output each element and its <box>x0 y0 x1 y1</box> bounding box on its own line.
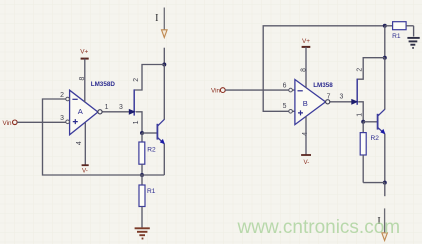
svg-text:3: 3 <box>339 94 343 101</box>
wire: base of Q4 <box>363 121 377 123</box>
Q1 gate arrow <box>129 109 136 115</box>
resistor R2 <box>139 133 156 175</box>
svg-text:1: 1 <box>133 120 140 124</box>
wire: base of Q2 <box>142 132 157 134</box>
svg-text:7: 7 <box>327 94 331 101</box>
power V- (right) <box>301 116 311 165</box>
svg-text:www.cntronics.com: www.cntronics.com <box>237 217 401 238</box>
junction: emitter/feedback node <box>140 173 144 177</box>
svg-text:1: 1 <box>105 104 109 111</box>
current annotation I (right circuit) <box>377 208 387 240</box>
wire: emitter rail <box>163 144 165 175</box>
wire: drain step of JFET Q1 <box>134 65 164 91</box>
junction: base node <box>140 131 144 135</box>
wire: node down <box>384 183 386 197</box>
junction: top node (right) <box>383 24 387 28</box>
wire: Q1 source lead down to base node <box>136 112 142 133</box>
svg-text:2: 2 <box>133 78 140 82</box>
resistor R1 (right) <box>385 22 414 40</box>
svg-text:1: 1 <box>356 113 363 117</box>
ground (right top) <box>407 38 419 48</box>
svg-text:I: I <box>155 13 158 24</box>
ground (left) <box>135 228 150 238</box>
svg-text:R1: R1 <box>392 33 401 40</box>
power V- (left) <box>82 123 89 175</box>
junction: drain node (right) <box>383 56 387 60</box>
svg-text:R2: R2 <box>147 146 156 153</box>
svg-text:6: 6 <box>283 83 287 90</box>
wire: feedback top loop (right) <box>263 26 385 112</box>
port Vin (right) <box>211 88 295 95</box>
transistor Q1 JFET channel bar <box>133 89 135 115</box>
svg-text:2: 2 <box>60 92 64 99</box>
svg-text:2: 2 <box>357 68 364 72</box>
junction: drain node <box>162 63 166 67</box>
pin circle: pin 5 <box>289 110 293 114</box>
svg-text:V+: V+ <box>302 38 310 45</box>
svg-text:4: 4 <box>76 141 83 145</box>
wire: drain step of JFET Q3 <box>357 58 385 79</box>
power V+ (right) <box>302 38 311 87</box>
svg-text:R1: R1 <box>147 188 156 195</box>
wire: Q3 source lead down to base node <box>358 102 363 122</box>
wire: collector rail (right) <box>384 58 386 110</box>
svg-text:V-: V- <box>303 159 309 166</box>
svg-text:LM358: LM358 <box>313 82 333 89</box>
svg-text:Vin: Vin <box>3 120 12 127</box>
svg-text:3: 3 <box>60 115 64 122</box>
svg-text:V+: V+ <box>80 49 88 56</box>
pin circle: pin 2 <box>66 97 70 101</box>
junction: base node (right) <box>361 120 365 124</box>
wire: collector rail <box>163 65 165 120</box>
wire: op-amp output to Q3 gate <box>330 101 352 103</box>
wire: op-amp output to Q1 gate <box>102 111 129 113</box>
svg-text:Vin: Vin <box>211 88 220 95</box>
wire: feedback to inverting input <box>43 99 143 175</box>
resistor R2 (right) <box>360 122 379 183</box>
svg-text:3: 3 <box>119 104 123 111</box>
svg-text:V-: V- <box>82 168 88 175</box>
svg-text:5: 5 <box>283 103 287 110</box>
Q3 gate arrow <box>351 99 358 105</box>
op-amp U1B <box>295 80 333 125</box>
pin circle: pin 6 <box>289 88 293 92</box>
wire: emitter to node <box>142 174 164 176</box>
transistor Q4 NPN <box>378 109 386 134</box>
resistor R1 (left) <box>139 175 156 227</box>
wire: R2 bottom to emitter node <box>363 182 385 184</box>
current annotation I (left circuit) <box>155 8 167 38</box>
port Vin (left) <box>3 120 67 127</box>
pin circle: output pin 7 <box>326 100 330 104</box>
pin circle: pin 3 <box>66 120 70 124</box>
wire: emitter rail (right) <box>384 134 386 183</box>
junction: emitter node (right) <box>383 181 387 185</box>
op-amp U1A <box>70 81 116 135</box>
svg-text:LM358D: LM358D <box>91 81 116 88</box>
transistor Q3 JFET channel bar <box>356 79 358 105</box>
wire: top rail into drain node <box>163 48 165 65</box>
transistor Q2 NPN <box>157 119 165 144</box>
pin circle: output pin 1 <box>98 110 102 114</box>
svg-text:B: B <box>303 99 308 108</box>
svg-text:R2: R2 <box>370 135 379 142</box>
power V+ (left) <box>80 49 88 103</box>
wire: right rail upper <box>384 26 386 58</box>
